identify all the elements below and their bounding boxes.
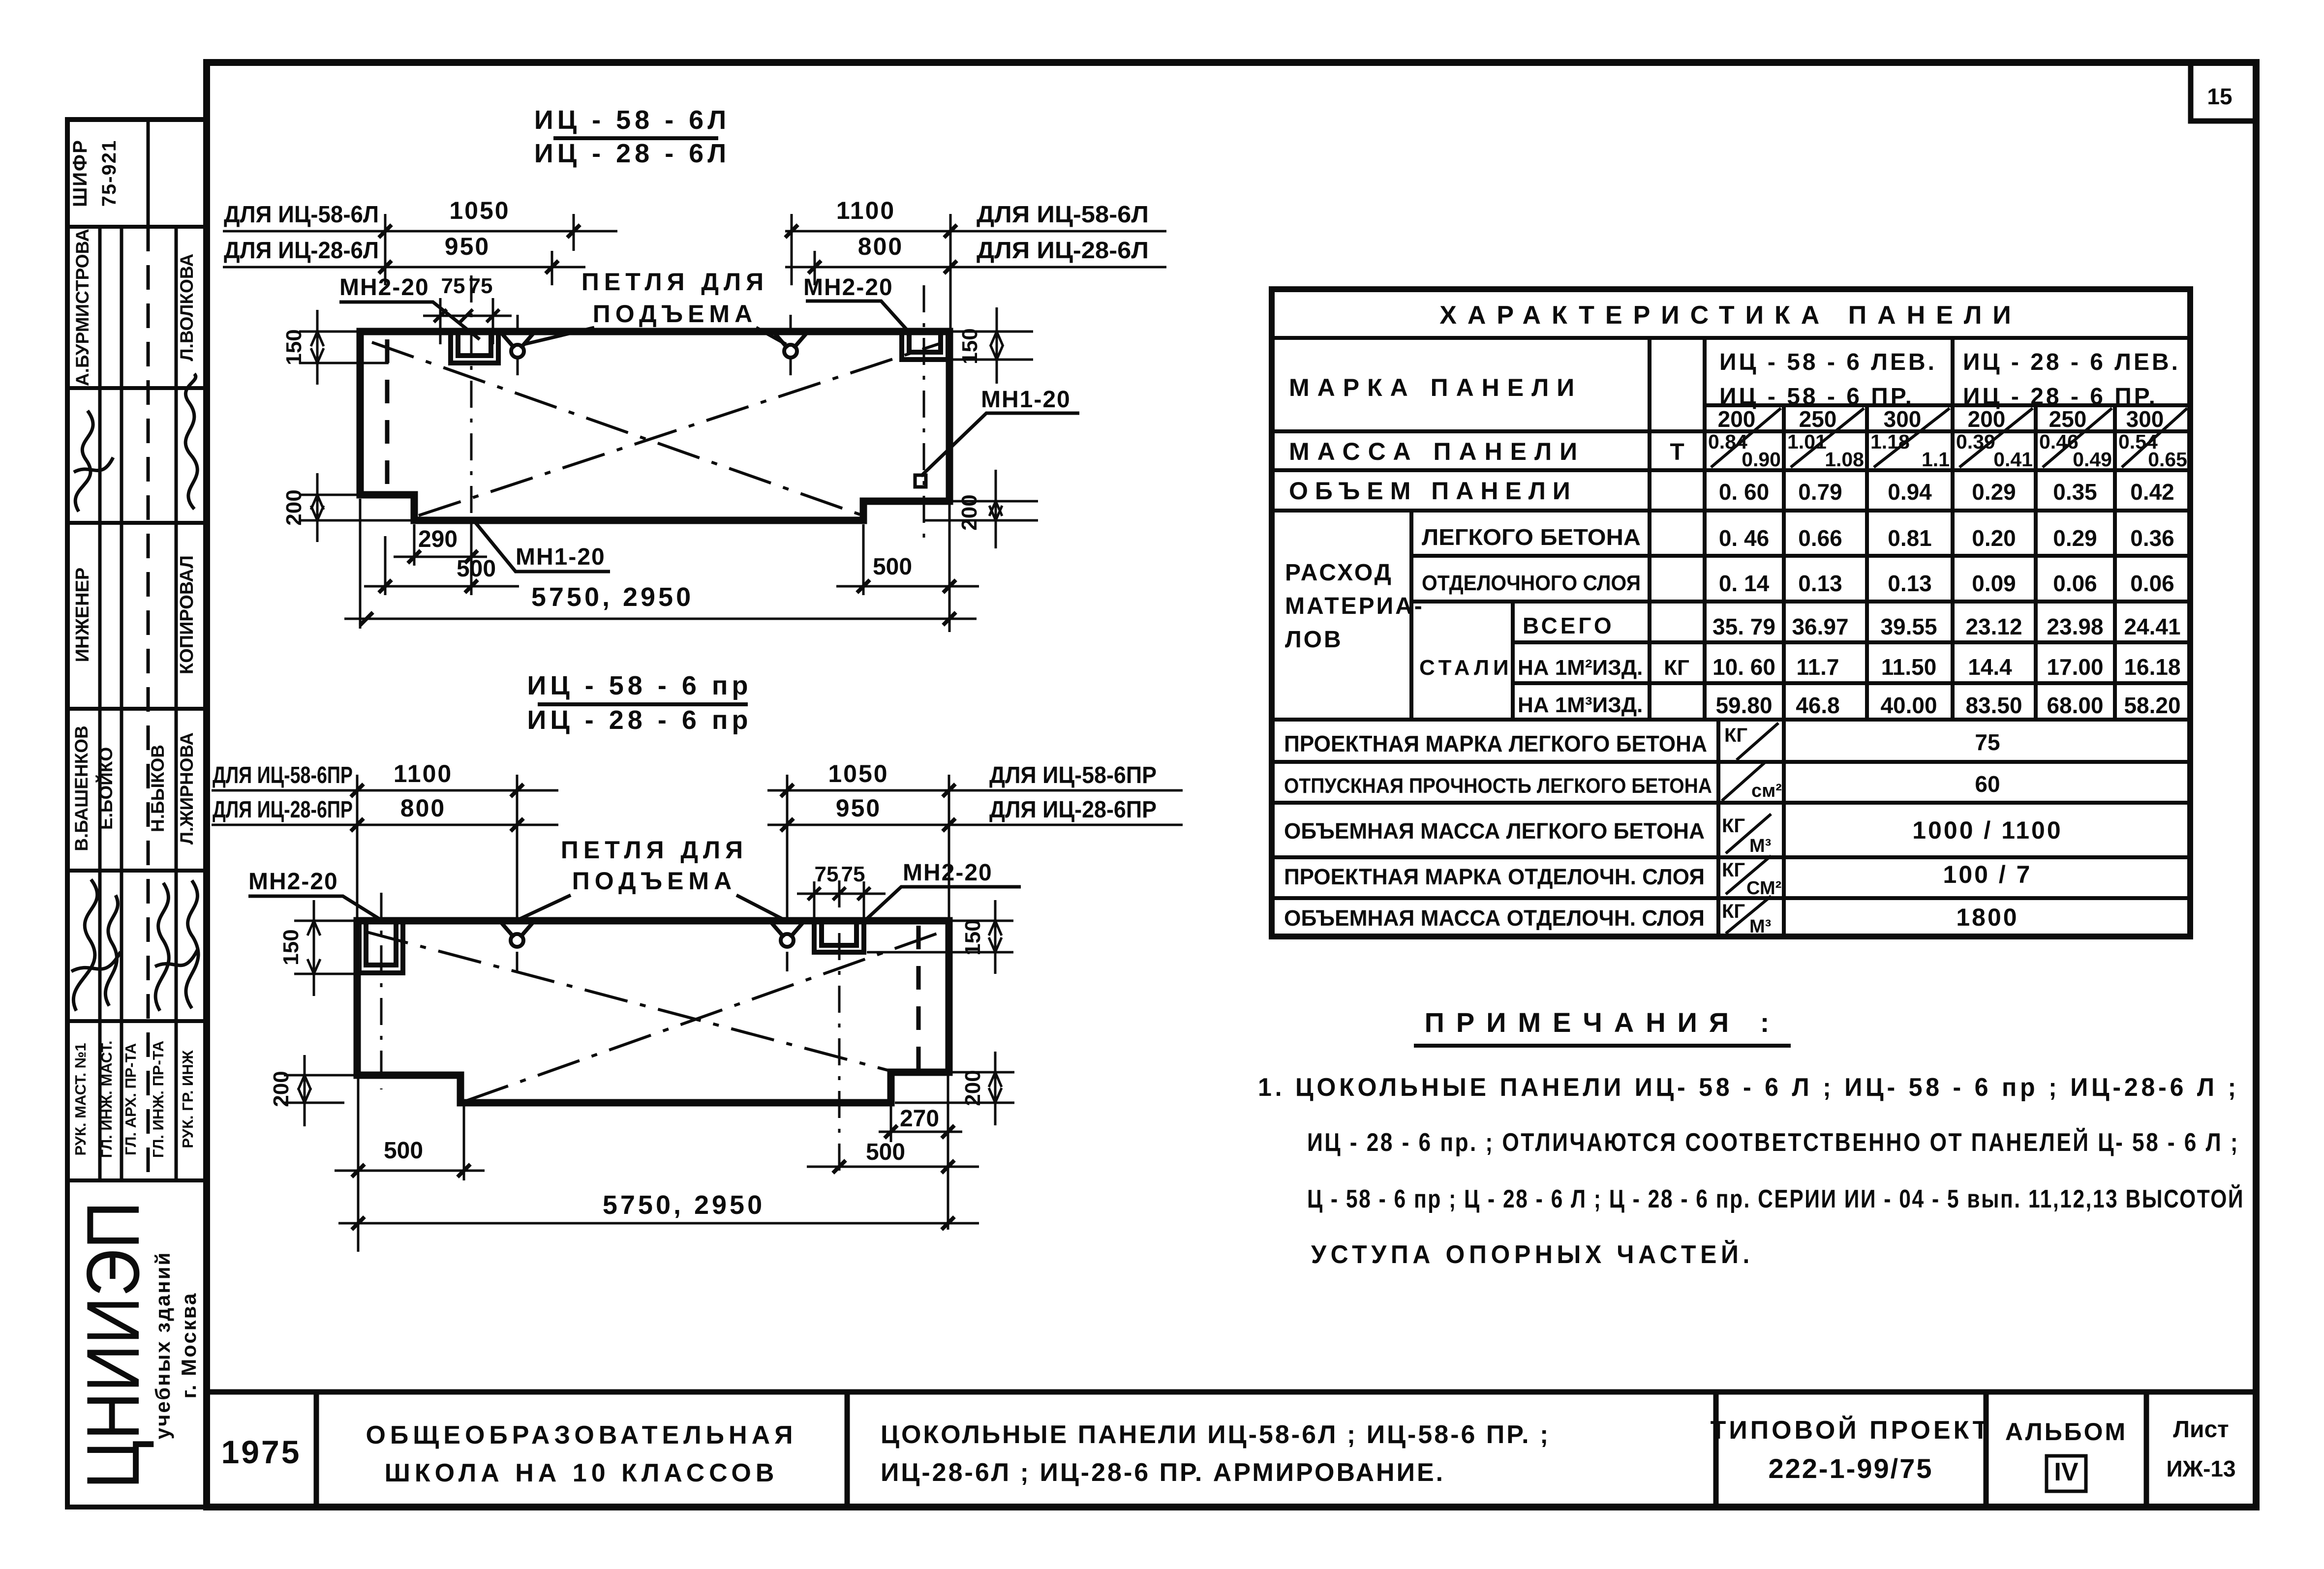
svg-text:1050: 1050 <box>828 760 888 787</box>
svg-text:300: 300 <box>1884 406 1922 432</box>
svg-text:КГ: КГ <box>1664 656 1689 680</box>
svg-text:СТАЛИ: СТАЛИ <box>1419 656 1513 680</box>
svg-text:МН2-20: МН2-20 <box>339 274 429 301</box>
svg-text:ЦНИИЭП: ЦНИИЭП <box>71 1202 155 1489</box>
svg-text:ДЛЯ ИЦ-28-6Л: ДЛЯ ИЦ-28-6Л <box>977 238 1149 264</box>
svg-text:СМ²: СМ² <box>1746 878 1781 899</box>
svg-text:ОБЩЕОБРАЗОВАТЕЛЬНАЯ: ОБЩЕОБРАЗОВАТЕЛЬНАЯ <box>366 1421 797 1449</box>
svg-text:200: 200 <box>1968 406 2006 432</box>
svg-text:ИЖ-13: ИЖ-13 <box>2166 1456 2235 1481</box>
svg-text:ИЦ - 28 - 6 пр. ; ОТЛИЧАЮТСЯ: ИЦ - 28 - 6 пр. ; ОТЛИЧАЮТСЯ СООТВЕТСТВЕ… <box>1307 1128 2239 1157</box>
svg-text:ГЛ. ИНЖ. ПР-ТА: ГЛ. ИНЖ. ПР-ТА <box>150 1041 167 1158</box>
svg-text:0.20: 0.20 <box>1972 525 2016 551</box>
svg-text:ПЕТЛЯ ДЛЯ: ПЕТЛЯ ДЛЯ <box>561 836 748 864</box>
svg-text:83.50: 83.50 <box>1965 693 2022 718</box>
svg-text:Л.ВОЛКОВА: Л.ВОЛКОВА <box>177 254 197 362</box>
svg-text:75: 75 <box>1975 729 2000 755</box>
svg-text:75: 75 <box>441 274 465 298</box>
svg-text:ЛОВ: ЛОВ <box>1285 627 1343 653</box>
svg-text:ПРИМЕЧАНИЯ :: ПРИМЕЧАНИЯ : <box>1425 1007 1781 1038</box>
svg-text:IV: IV <box>2054 1458 2078 1486</box>
svg-text:36.97: 36.97 <box>1792 614 1848 639</box>
svg-text:ПРОЕКТНАЯ МАРКА ОТДЕЛОЧН. СЛОЯ: ПРОЕКТНАЯ МАРКА ОТДЕЛОЧН. СЛОЯ <box>1284 864 1705 889</box>
svg-text:5750, 2950: 5750, 2950 <box>603 1190 765 1220</box>
svg-text:КГ: КГ <box>1722 815 1745 837</box>
svg-text:КГ: КГ <box>1722 859 1745 881</box>
svg-text:ИНЖЕНЕР: ИНЖЕНЕР <box>72 568 93 663</box>
svg-text:1100: 1100 <box>836 197 895 224</box>
svg-text:17.00: 17.00 <box>2047 654 2103 680</box>
svg-text:ИЦ - 28 - 6 ЛЕВ.: ИЦ - 28 - 6 ЛЕВ. <box>1963 349 2180 375</box>
svg-text:100 / 7: 100 / 7 <box>1943 861 2032 888</box>
svg-text:НА 1М³ИЗД.: НА 1М³ИЗД. <box>1518 693 1643 717</box>
svg-text:0.06: 0.06 <box>2053 571 2097 596</box>
svg-text:ОБЪЕМНАЯ МАССА ЛЕГКОГО БЕТОНА: ОБЪЕМНАЯ МАССА ЛЕГКОГО БЕТОНА <box>1284 818 1705 844</box>
svg-text:16.18: 16.18 <box>2124 654 2180 680</box>
svg-text:0.39: 0.39 <box>1956 430 1995 453</box>
svg-text:500: 500 <box>866 1139 905 1165</box>
svg-text:1000 / 1100: 1000 / 1100 <box>1912 816 2062 844</box>
svg-text:1800: 1800 <box>1956 904 2018 931</box>
svg-text:0.06: 0.06 <box>2130 571 2174 596</box>
svg-text:РАСХОД: РАСХОД <box>1285 560 1393 586</box>
svg-text:Н.БЫКОВ: Н.БЫКОВ <box>148 745 168 832</box>
svg-text:0.35: 0.35 <box>2053 479 2097 505</box>
svg-text:800: 800 <box>400 794 446 822</box>
svg-text:ДЛЯ ИЦ-58-6ПР: ДЛЯ ИЦ-58-6ПР <box>989 762 1157 788</box>
svg-text:39.55: 39.55 <box>1880 614 1937 639</box>
svg-text:1050: 1050 <box>449 197 510 224</box>
svg-text:800: 800 <box>858 233 903 260</box>
svg-text:ДЛЯ ИЦ-28-6ПР: ДЛЯ ИЦ-28-6ПР <box>989 797 1157 823</box>
svg-text:950: 950 <box>445 233 490 260</box>
svg-text:ПРОЕКТНАЯ МАРКА ЛЕГКОГО БЕТОНА: ПРОЕКТНАЯ МАРКА ЛЕГКОГО БЕТОНА <box>1284 731 1707 756</box>
svg-text:75-921: 75-921 <box>98 140 120 207</box>
svg-text:200: 200 <box>282 489 306 525</box>
svg-text:г. Москва: г. Москва <box>177 1292 200 1399</box>
svg-text:Т: Т <box>1670 439 1684 465</box>
svg-text:0.13: 0.13 <box>1888 571 1932 596</box>
svg-text:ХАРАКТЕРИСТИКА ПАНЕЛИ: ХАРАКТЕРИСТИКА ПАНЕЛИ <box>1439 301 2022 330</box>
svg-text:950: 950 <box>836 794 881 822</box>
svg-text:ВСЕГО: ВСЕГО <box>1523 613 1615 638</box>
svg-text:ИЦ - 58 - 6 пр: ИЦ - 58 - 6 пр <box>527 671 752 700</box>
svg-text:200: 200 <box>961 1070 985 1106</box>
svg-text:ПЕТЛЯ ДЛЯ: ПЕТЛЯ ДЛЯ <box>581 268 768 296</box>
svg-text:60: 60 <box>1975 771 2000 797</box>
svg-text:Ц - 58 - 6 пр ; Ц - 28 - 6 Л: Ц - 58 - 6 пр ; Ц - 28 - 6 Л ; Ц - 28 - … <box>1307 1184 2244 1213</box>
svg-text:ГЛ. ИНЖ. МАСТ.: ГЛ. ИНЖ. МАСТ. <box>98 1041 115 1158</box>
svg-text:500: 500 <box>457 556 496 582</box>
svg-text:ТИПОВОЙ ПРОЕКТ: ТИПОВОЙ ПРОЕКТ <box>1711 1416 1991 1445</box>
svg-text:Е.БОЙКО: Е.БОЙКО <box>95 747 116 830</box>
svg-text:0.81: 0.81 <box>1888 525 1932 551</box>
svg-text:75: 75 <box>815 862 839 886</box>
svg-text:24.41: 24.41 <box>2124 614 2180 639</box>
svg-text:0.41: 0.41 <box>1993 448 2033 471</box>
svg-text:150: 150 <box>282 329 306 365</box>
svg-text:500: 500 <box>873 554 912 580</box>
svg-text:ИЦ-28-6Л ; ИЦ-28-6 ПР. АРМИ: ИЦ-28-6Л ; ИЦ-28-6 ПР. АРМИРОВАНИЕ. <box>881 1458 1445 1487</box>
svg-text:МН2-20: МН2-20 <box>248 869 338 895</box>
svg-text:РУК. ГР. ИНЖ: РУК. ГР. ИНЖ <box>179 1050 196 1148</box>
svg-text:0.42: 0.42 <box>2130 479 2174 505</box>
svg-text:МАТЕРИА-: МАТЕРИА- <box>1285 593 1424 619</box>
svg-text:0.29: 0.29 <box>2053 525 2097 551</box>
svg-text:75: 75 <box>841 862 865 886</box>
svg-text:ДЛЯ ИЦ-28-6Л: ДЛЯ ИЦ-28-6Л <box>224 238 379 264</box>
svg-text:ИЦ - 58 - 6Л: ИЦ - 58 - 6Л <box>534 105 730 135</box>
svg-text:ДЛЯ ИЦ-28-6ПР: ДЛЯ ИЦ-28-6ПР <box>213 797 353 823</box>
svg-text:ОБЪЕМНАЯ МАССА ОТДЕЛОЧН. СЛОЯ: ОБЪЕМНАЯ МАССА ОТДЕЛОЧН. СЛОЯ <box>1284 905 1705 931</box>
svg-text:0.49: 0.49 <box>2073 448 2112 471</box>
svg-text:5750, 2950: 5750, 2950 <box>531 582 694 612</box>
svg-text:ДЛЯ ИЦ-58-6ПР: ДЛЯ ИЦ-58-6ПР <box>213 762 353 788</box>
svg-text:0. 46: 0. 46 <box>1719 525 1769 551</box>
svg-text:75: 75 <box>469 274 493 298</box>
svg-text:М³: М³ <box>1749 836 1771 856</box>
svg-text:0.90: 0.90 <box>1742 448 1781 471</box>
svg-text:200: 200 <box>957 494 981 530</box>
svg-text:0.09: 0.09 <box>1972 571 2016 596</box>
svg-text:270: 270 <box>900 1106 939 1132</box>
svg-text:НА 1М²ИЗД.: НА 1М²ИЗД. <box>1518 656 1643 680</box>
svg-text:0.94: 0.94 <box>1888 479 1932 505</box>
svg-text:АЛЬБОМ: АЛЬБОМ <box>2005 1418 2127 1446</box>
svg-text:14.4: 14.4 <box>1968 654 2012 680</box>
svg-text:40.00: 40.00 <box>1880 693 1937 718</box>
svg-text:0.36: 0.36 <box>2130 525 2174 551</box>
svg-text:0. 60: 0. 60 <box>1719 479 1769 505</box>
svg-text:15: 15 <box>2207 84 2232 109</box>
svg-text:500: 500 <box>384 1138 423 1164</box>
svg-text:см²: см² <box>1751 781 1782 801</box>
svg-text:0.29: 0.29 <box>1972 479 2016 505</box>
svg-text:В.БАШЕНКОВ: В.БАШЕНКОВ <box>71 725 92 851</box>
svg-text:МАРКА ПАНЕЛИ: МАРКА ПАНЕЛИ <box>1289 374 1582 401</box>
svg-text:0.65: 0.65 <box>2148 448 2187 471</box>
svg-text:222-1-99/75: 222-1-99/75 <box>1768 1453 1933 1484</box>
svg-text:68.00: 68.00 <box>2047 693 2103 718</box>
svg-text:ШИФР: ШИФР <box>69 139 91 207</box>
svg-text:МАССА ПАНЕЛИ: МАССА ПАНЕЛИ <box>1289 438 1585 465</box>
svg-text:250: 250 <box>2049 406 2087 432</box>
svg-text:200: 200 <box>1718 406 1756 432</box>
svg-text:1975: 1975 <box>221 1434 302 1470</box>
svg-text:ПОДЪЕМА: ПОДЪЕМА <box>572 867 736 895</box>
svg-text:1. ЦОКОЛЬНЫЕ ПАНЕЛИ ИЦ- 58 -: 1. ЦОКОЛЬНЫЕ ПАНЕЛИ ИЦ- 58 - 6 Л ; ИЦ- 5… <box>1258 1073 2239 1102</box>
svg-text:300: 300 <box>2126 406 2164 432</box>
svg-text:МН1-20: МН1-20 <box>981 387 1071 413</box>
svg-text:59.80: 59.80 <box>1715 693 1772 718</box>
svg-text:ОБЪЕМ ПАНЕЛИ: ОБЪЕМ ПАНЕЛИ <box>1289 477 1577 505</box>
svg-text:150: 150 <box>279 929 303 965</box>
svg-text:ЛЕГКОГО БЕТОНА: ЛЕГКОГО БЕТОНА <box>1422 524 1641 550</box>
svg-text:1.1: 1.1 <box>1922 448 1950 471</box>
svg-text:ДЛЯ ИЦ-58-6Л: ДЛЯ ИЦ-58-6Л <box>977 202 1149 228</box>
svg-text:0.13: 0.13 <box>1798 571 1842 596</box>
svg-text:ИЦ - 58 - 6 ЛЕВ.: ИЦ - 58 - 6 ЛЕВ. <box>1719 349 1937 375</box>
svg-text:ИЦ - 28 - 6 пр: ИЦ - 28 - 6 пр <box>527 705 752 735</box>
svg-text:ДЛЯ ИЦ-58-6Л: ДЛЯ ИЦ-58-6Л <box>224 202 379 228</box>
svg-text:1.01: 1.01 <box>1787 430 1827 453</box>
svg-text:58.20: 58.20 <box>2124 693 2180 718</box>
svg-text:А.БУРМИСТРОВА: А.БУРМИСТРОВА <box>72 229 92 386</box>
svg-text:200: 200 <box>269 1071 293 1107</box>
svg-text:10. 60: 10. 60 <box>1712 654 1775 680</box>
svg-text:35. 79: 35. 79 <box>1712 614 1775 639</box>
svg-text:Лист: Лист <box>2173 1417 2229 1443</box>
svg-text:РУК. МАСТ. №1: РУК. МАСТ. №1 <box>72 1043 89 1155</box>
svg-text:11.50: 11.50 <box>1881 654 1937 680</box>
svg-text:ИЦ - 28 - 6Л: ИЦ - 28 - 6Л <box>534 139 730 168</box>
svg-text:УСТУПА ОПОРНЫХ ЧАСТЕЙ.: УСТУПА ОПОРНЫХ ЧАСТЕЙ. <box>1311 1240 1754 1269</box>
svg-text:1100: 1100 <box>394 760 453 787</box>
svg-text:ШКОЛА НА 10 КЛАССОВ: ШКОЛА НА 10 КЛАССОВ <box>385 1459 779 1487</box>
svg-text:11.7: 11.7 <box>1797 654 1839 680</box>
svg-text:ОТПУСКНАЯ ПРОЧНОСТЬ ЛЕГКОГО БЕ: ОТПУСКНАЯ ПРОЧНОСТЬ ЛЕГКОГО БЕТОНА <box>1284 774 1712 798</box>
svg-text:23.12: 23.12 <box>1965 614 2022 639</box>
svg-text:1.18: 1.18 <box>1870 430 1910 453</box>
svg-text:ПОДЪЕМА: ПОДЪЕМА <box>593 300 757 328</box>
svg-text:150: 150 <box>961 919 985 955</box>
svg-text:МН1-20: МН1-20 <box>516 544 606 570</box>
svg-text:МН2-20: МН2-20 <box>803 274 893 301</box>
svg-text:Л.ЖИРНОВА: Л.ЖИРНОВА <box>177 732 197 845</box>
svg-text:23.98: 23.98 <box>2047 614 2103 639</box>
svg-text:ОТДЕЛОЧНОГО СЛОЯ: ОТДЕЛОЧНОГО СЛОЯ <box>1422 571 1641 595</box>
svg-text:46.8: 46.8 <box>1796 693 1840 718</box>
svg-text:М³: М³ <box>1749 916 1771 937</box>
svg-text:МН2-20: МН2-20 <box>903 860 993 886</box>
svg-text:0.79: 0.79 <box>1798 479 1842 505</box>
svg-text:0. 14: 0. 14 <box>1719 571 1770 596</box>
svg-text:0.66: 0.66 <box>1798 525 1842 551</box>
svg-text:учебных зданий: учебных зданий <box>151 1251 174 1440</box>
svg-text:250: 250 <box>1799 406 1837 432</box>
svg-text:ГЛ. АРХ. ПР-ТА: ГЛ. АРХ. ПР-ТА <box>122 1043 139 1155</box>
svg-text:290: 290 <box>418 526 458 552</box>
svg-text:КГ: КГ <box>1724 724 1747 746</box>
svg-text:150: 150 <box>958 328 982 364</box>
svg-text:КОПИРОВАЛ: КОПИРОВАЛ <box>177 555 197 674</box>
svg-text:1.08: 1.08 <box>1825 448 1864 471</box>
svg-text:ЦОКОЛЬНЫЕ ПАНЕЛИ ИЦ-58-6Л ;: ЦОКОЛЬНЫЕ ПАНЕЛИ ИЦ-58-6Л ; ИЦ-58-6 ПР. … <box>881 1420 1550 1449</box>
